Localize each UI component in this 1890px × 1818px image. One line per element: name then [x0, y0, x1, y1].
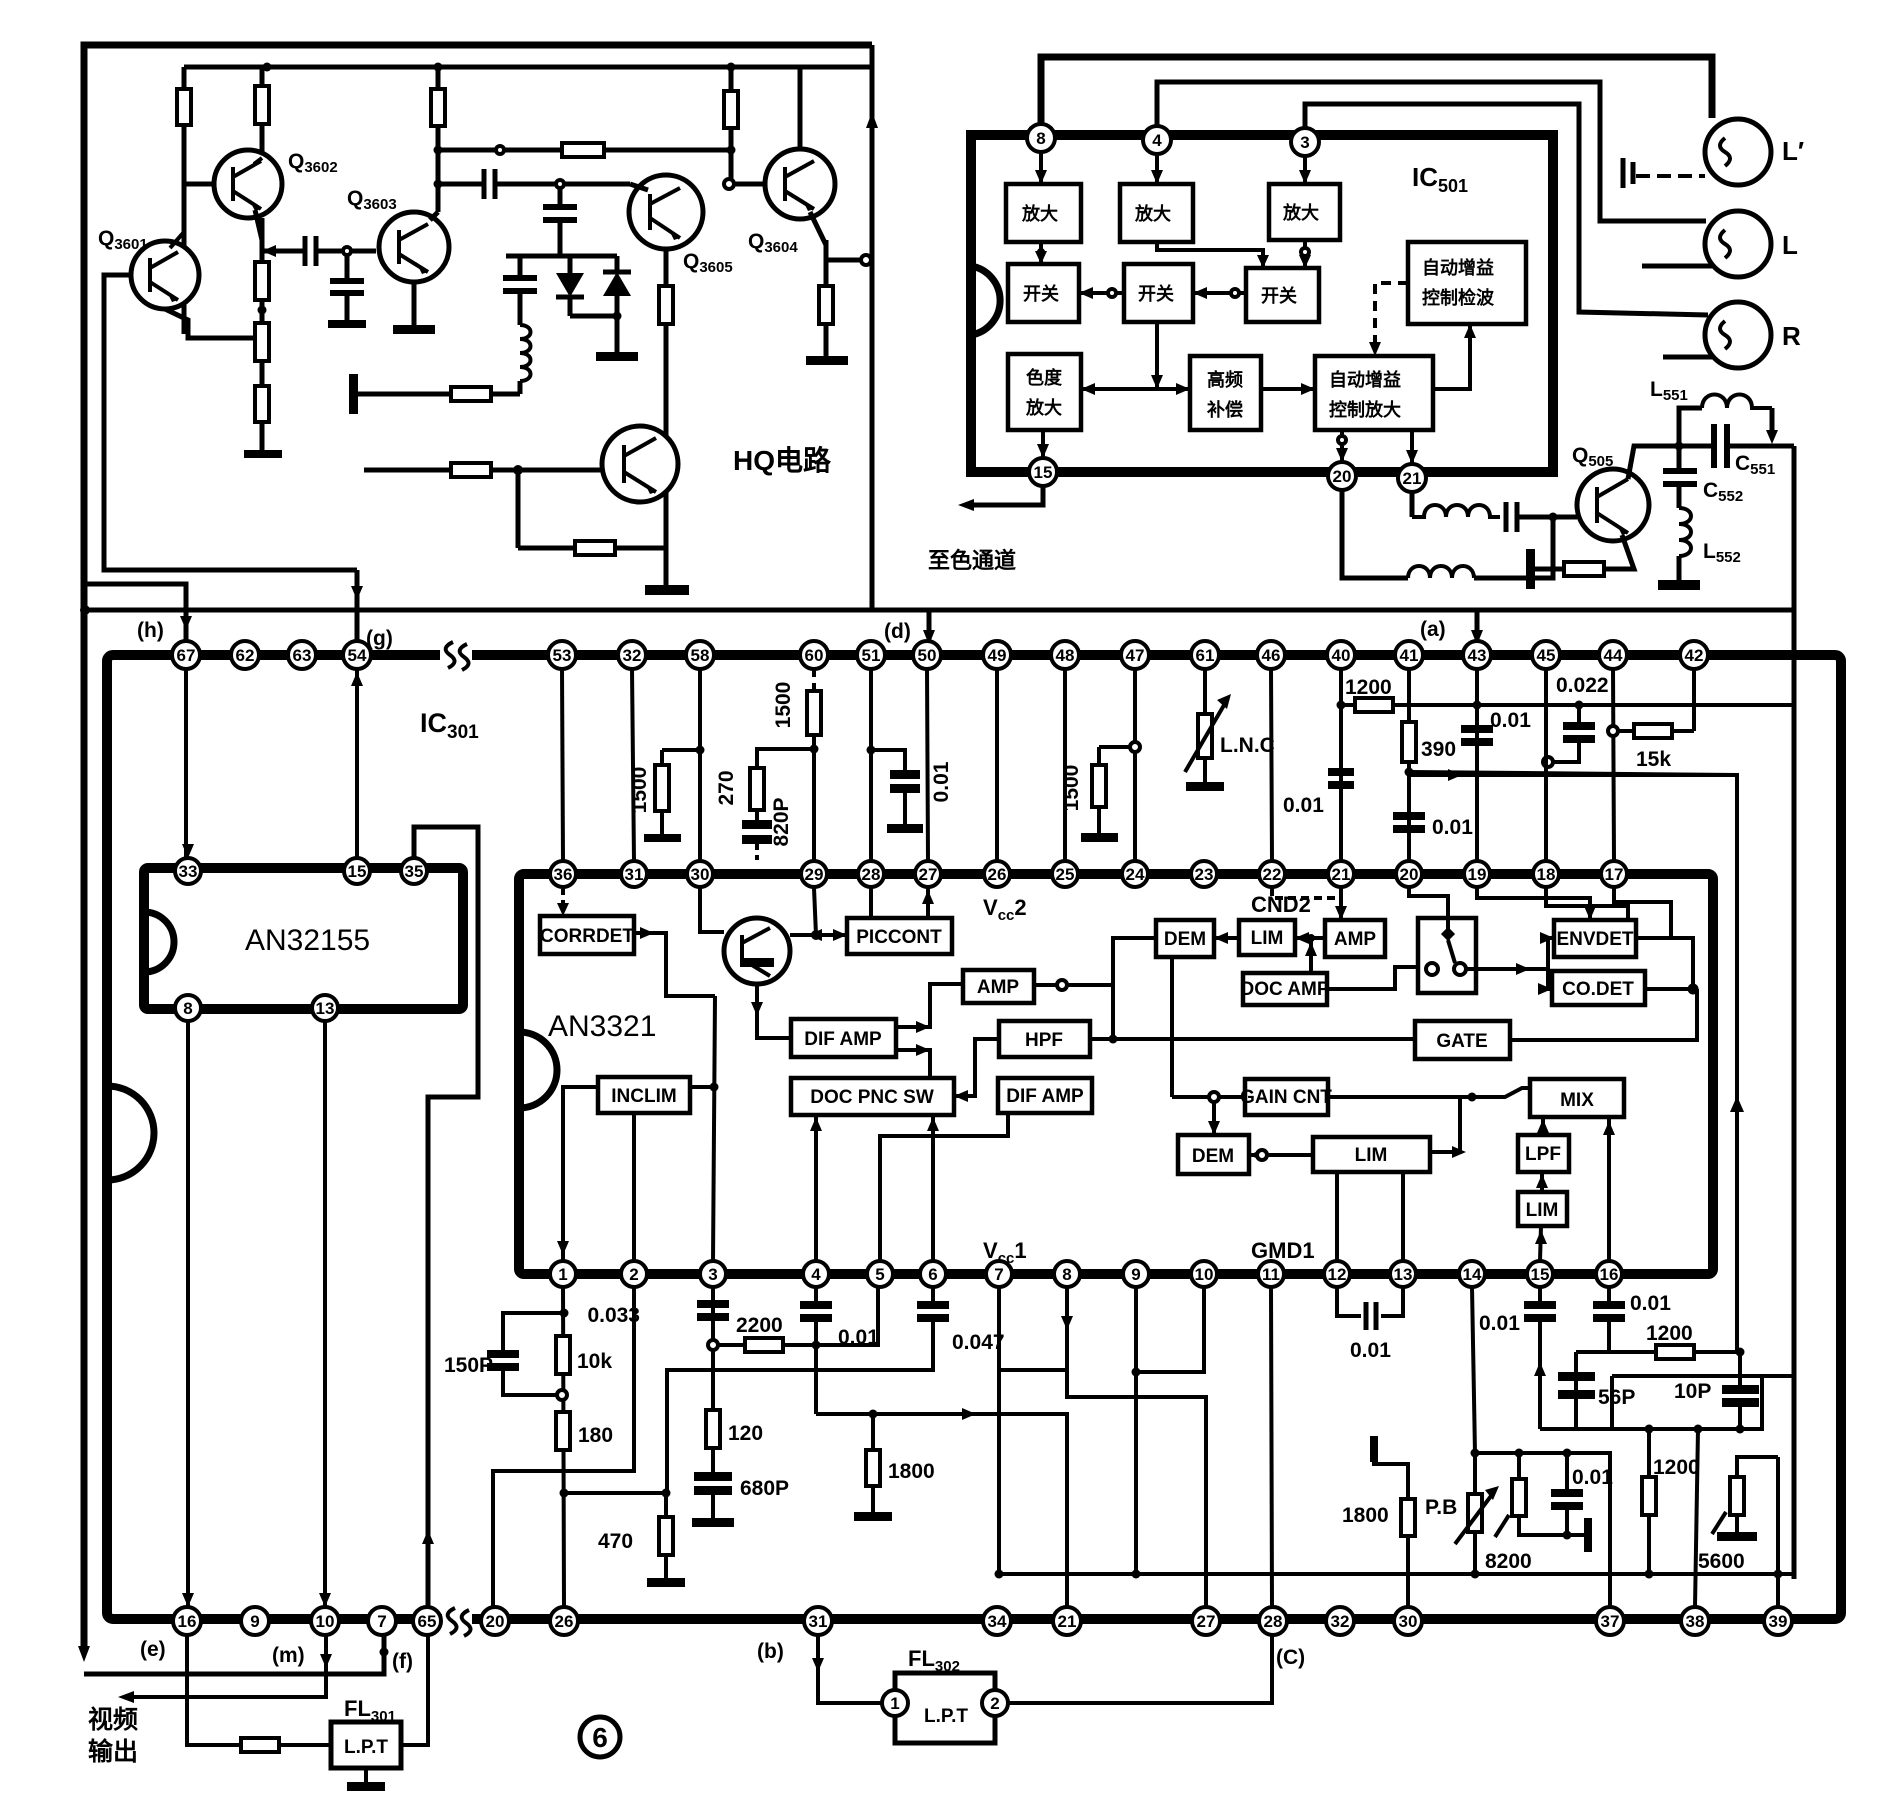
svg-text:8200: 8200: [1485, 1550, 1532, 1573]
svg-text:高频: 高频: [1207, 369, 1243, 390]
resistor 1800 left: [854, 1414, 892, 1521]
pin 24 AN3321 top: [1122, 861, 1148, 887]
head L': [1705, 119, 1771, 185]
svg-text:L.P.T: L.P.T: [344, 1737, 388, 1758]
capacitor C552: [1663, 446, 1697, 508]
svg-text:至色通道: 至色通道: [928, 548, 1016, 573]
wire LIM2 to DEM2: [1249, 1149, 1313, 1161]
resistor FL301 input: [241, 1738, 331, 1752]
wire Q3604 collector: [798, 67, 803, 149]
block LPF: [1518, 1135, 1569, 1172]
svg-text:开关: 开关: [1261, 285, 1297, 306]
wire DEM bottom to GAINCNT: [1172, 957, 1245, 1102]
diode D3601: [556, 256, 584, 316]
potentiometer L.N.C at pin61: [1185, 669, 1231, 791]
ground Q3606 emitter: [645, 548, 689, 595]
capacitor 0.01 pb: [1551, 1453, 1592, 1552]
svg-text:28: 28: [862, 865, 881, 884]
svg-text:视频: 视频: [88, 1706, 138, 1734]
wire pin3 column: [708, 1287, 718, 1410]
IC block AN32155: [144, 868, 463, 1009]
svg-text:1800: 1800: [1342, 1504, 1389, 1527]
wire pin53 to pin36: [562, 669, 563, 861]
svg-text:41: 41: [1400, 646, 1419, 665]
svg-text:DEM: DEM: [1192, 1146, 1234, 1167]
wire DOCAMP top: [1305, 938, 1317, 973]
pin 8 AN3321 bottom: [1054, 1261, 1080, 1287]
svg-text:(m): (m): [272, 1644, 305, 1667]
wire pin44 to pin17: [1608, 669, 1618, 861]
pin 2 AN3321 bottom: [621, 1261, 647, 1287]
wire pin39 column: [1774, 1457, 1783, 1607]
svg-text:46: 46: [1262, 646, 1281, 665]
transistor Q3605: [629, 175, 703, 249]
pin 42 IC301 top: [1680, 641, 1708, 669]
capacitor 0.022 at pin45: [1543, 705, 1595, 767]
pin 25 AN3321 top: [1052, 861, 1078, 887]
svg-text:(f): (f): [392, 1650, 413, 1673]
svg-text:6: 6: [928, 1265, 937, 1284]
wire y1493 to 470: [564, 1489, 671, 1498]
resistor 8200: [1495, 1453, 1563, 1537]
svg-text:0.01: 0.01: [1490, 709, 1531, 732]
pin 7 IC301 bottom: [368, 1607, 396, 1635]
wire switch2 to switch1: [1079, 287, 1124, 299]
wire (a) drop to pin43: [1471, 610, 1483, 645]
wire pin67 to pin33: [182, 669, 194, 858]
wire pin6 to DOCPNCSW: [927, 1115, 939, 1261]
wire switch out fork: [1466, 932, 1554, 995]
pin 20 IC301 bottom: [481, 1607, 509, 1635]
wire Q3605 base: [630, 184, 648, 190]
svg-text:7: 7: [994, 1265, 1003, 1284]
resistor 1500 at pin47: [1081, 747, 1130, 842]
wire FL302 to pin28: [1008, 1635, 1272, 1703]
wire pin60 to pin29 + resistor 1500: [807, 669, 821, 861]
pin 35 AN32155 top: [401, 858, 427, 884]
capacitor 10P: [1722, 1352, 1759, 1429]
pin 38 IC301 bottom: [1681, 1607, 1709, 1635]
wire AGC amp to pin21: [1406, 430, 1418, 464]
resistor R3604: [724, 67, 738, 184]
wire DIFAMP to AMP: [896, 984, 963, 1033]
wire pin7 column: [995, 1287, 1004, 1579]
block amp3: [1269, 184, 1340, 240]
svg-text:4: 4: [1152, 131, 1162, 150]
svg-text:680P: 680P: [740, 1477, 789, 1500]
pin 48 IC301 top: [1051, 641, 1079, 669]
pin 21 IC301 bottom: [1053, 1607, 1081, 1635]
svg-text:35: 35: [405, 862, 424, 881]
svg-text:27: 27: [919, 865, 938, 884]
wire AGC det dashed feedback: [1369, 283, 1408, 356]
pin 31 IC301 bottom: [804, 1607, 832, 1635]
pin 26 IC301 bottom: [550, 1607, 578, 1635]
svg-text:21: 21: [1403, 469, 1422, 488]
svg-text:23: 23: [1195, 865, 1214, 884]
block HF compensation: [1190, 356, 1261, 430]
svg-text:0.01: 0.01: [838, 1326, 879, 1349]
wire pin17 elbow: [1614, 888, 1671, 938]
wire (h) feed: [85, 584, 192, 641]
pin 18 AN3321 top: [1533, 861, 1559, 887]
pin 10 IC301 bottom: [311, 1607, 339, 1635]
pin 58 IC301 top: [686, 641, 714, 669]
capacitor C3604 small: [543, 188, 577, 256]
svg-text:13: 13: [316, 999, 335, 1018]
svg-text:62: 62: [236, 646, 255, 665]
svg-text:31: 31: [625, 865, 644, 884]
wire switch2 down to chroma line: [1151, 322, 1163, 389]
block amp2: [1120, 184, 1193, 242]
block PICCONT: [847, 918, 952, 954]
wire Q3601 emitter: [165, 309, 262, 338]
svg-text:5600: 5600: [1698, 1550, 1745, 1573]
pin 30 IC301 bottom: [1394, 1607, 1422, 1635]
pin 11 AN3321 bottom: [1258, 1261, 1284, 1287]
svg-text:1200: 1200: [1345, 676, 1392, 699]
wire pin54 to pin15: [351, 669, 363, 858]
transistor Q3603: [379, 212, 449, 282]
svg-text:150P: 150P: [444, 1354, 493, 1377]
resistor 2200 line: [718, 1287, 878, 1352]
svg-text:10P: 10P: [1674, 1380, 1711, 1403]
wire pin36 to CORRDET: [557, 888, 569, 916]
svg-text:28: 28: [1264, 1612, 1283, 1631]
wire INCLIM right: [690, 1085, 714, 1089]
capacitor 0.01 at pin41: [1393, 812, 1425, 833]
transistor Q3602: [214, 150, 282, 218]
pin 63 IC301 top: [288, 641, 316, 669]
wire Q3603 collector: [430, 146, 443, 221]
pin 20 AN3321 top: [1396, 861, 1422, 887]
wire LPF to LIM3: [1536, 1172, 1548, 1192]
svg-text:820P: 820P: [770, 797, 793, 846]
wire rail pin3 to head R: [1305, 104, 1708, 315]
resistor R3605: [255, 262, 269, 323]
block DIF AMP 2: [998, 1078, 1092, 1113]
pin 40 IC301 top: [1327, 641, 1355, 669]
pin 3 AN3321 bottom: [700, 1261, 726, 1287]
svg-text:29: 29: [805, 865, 824, 884]
pin 49 IC301 top: [983, 641, 1011, 669]
wire power rail top-left: [184, 63, 870, 72]
svg-text:0.01: 0.01: [1479, 1312, 1520, 1335]
block LIM: [1239, 920, 1295, 955]
wire pin1 to INCLIM: [557, 1087, 598, 1261]
wire pin19 to ENVDET: [1477, 888, 1596, 920]
svg-text:20: 20: [486, 1612, 505, 1631]
svg-text:47: 47: [1126, 646, 1145, 665]
svg-text:INCLIM: INCLIM: [611, 1086, 676, 1107]
pin 50 IC301 top: [913, 641, 941, 669]
svg-text:3: 3: [1300, 133, 1309, 152]
svg-text:AMP: AMP: [1334, 929, 1377, 950]
block switch1: [1008, 264, 1079, 322]
wire Q3604 emitter + resistor R3611: [806, 212, 848, 365]
wire HPF to DOCPNCSW: [954, 1039, 999, 1102]
block LIM 3: [1518, 1192, 1567, 1226]
wire pin8 to amp1: [1035, 152, 1047, 184]
wire GAINCNT to MIX and pin14: [1328, 1088, 1530, 1102]
capacitor 680P: [692, 1472, 734, 1527]
svg-text:1500: 1500: [628, 767, 651, 814]
wire pin6 column + capacitor 0.047: [667, 1287, 949, 1490]
block LIM 2: [1313, 1137, 1430, 1172]
svg-text:42: 42: [1685, 646, 1704, 665]
pin 20 IC501: [1328, 462, 1356, 490]
svg-text:58: 58: [691, 646, 710, 665]
wire chroma amp to pin15: [1037, 430, 1049, 458]
svg-text:22: 22: [1263, 865, 1282, 884]
pin 54 IC301 top: [343, 641, 371, 669]
capacitor 0.01 loop pins12-13: [1337, 1287, 1403, 1330]
block DEM 2: [1178, 1135, 1249, 1174]
svg-text:65: 65: [418, 1612, 437, 1631]
wire pin4 to amp2: [1151, 154, 1163, 184]
svg-text:8: 8: [1062, 1265, 1071, 1284]
trimmer near L': [1623, 158, 1705, 188]
wire pin13 to LIM2: [1401, 1172, 1405, 1261]
svg-text:2200: 2200: [736, 1314, 783, 1337]
svg-text:0.01: 0.01: [1432, 816, 1473, 839]
svg-text:控制检波: 控制检波: [1422, 287, 1495, 308]
svg-text:50: 50: [918, 646, 937, 665]
wire video bus horizontal: [80, 605, 1794, 615]
block CORRDET: [540, 916, 634, 954]
wire (d) drop to pin50: [923, 610, 935, 645]
pin 8 IC501: [1027, 124, 1055, 152]
svg-text:L.N.C: L.N.C: [1220, 734, 1275, 757]
svg-text:20: 20: [1400, 865, 1419, 884]
svg-text:30: 30: [1399, 1612, 1418, 1631]
pin 13 AN3321 bottom: [1390, 1261, 1416, 1287]
block switch3: [1246, 268, 1319, 322]
resistor R3606: [255, 323, 269, 386]
block AGC detector: [1408, 242, 1526, 324]
wire pin47 to pin24: [1130, 669, 1140, 861]
block HPF: [999, 1021, 1090, 1057]
wire pin5 to DIFAMP2: [880, 1113, 1008, 1261]
pin 1 AN3321 bottom: [550, 1261, 576, 1287]
pin 12 AN3321 bottom: [1324, 1261, 1350, 1287]
svg-text:(h): (h): [137, 619, 164, 642]
svg-text:15: 15: [1531, 1265, 1550, 1284]
wire pin32 to pin31: [632, 669, 634, 861]
wire LIM2 right up: [1430, 1097, 1466, 1158]
wire pin29 down: [814, 888, 816, 935]
svg-text:15k: 15k: [1636, 748, 1671, 771]
wire pin3 column up: [710, 996, 719, 1261]
svg-text:DOC PNC SW: DOC PNC SW: [810, 1087, 934, 1108]
wire Q3601 base: [104, 275, 357, 570]
svg-text:21: 21: [1058, 1612, 1077, 1631]
svg-text:10: 10: [1195, 1265, 1214, 1284]
svg-text:控制放大: 控制放大: [1329, 399, 1401, 420]
svg-text:LIM: LIM: [1355, 1145, 1388, 1166]
svg-text:60: 60: [805, 646, 824, 665]
wire Q3604 base: [724, 179, 765, 189]
wire pin22 elbow: [1272, 888, 1341, 898]
wire Q505 collector: [1628, 442, 1684, 480]
wire pin10 column: [1132, 1287, 1205, 1377]
wire DIFAMP to DOCPNCSW: [896, 1044, 930, 1078]
pin 39 IC301 bottom: [1764, 1607, 1792, 1635]
wire pin13 to pin10: [319, 1021, 331, 1607]
svg-text:10k: 10k: [577, 1350, 612, 1373]
pin 45 IC301 top: [1532, 641, 1560, 669]
svg-text:17: 17: [1605, 865, 1624, 884]
block GATE: [1415, 1021, 1510, 1059]
svg-text:色度: 色度: [1026, 367, 1063, 388]
svg-text:12: 12: [1328, 1265, 1347, 1284]
svg-text:7: 7: [377, 1612, 386, 1631]
pin 62 IC301 top: [231, 641, 259, 669]
svg-text:56P: 56P: [1598, 1386, 1635, 1409]
transistor Q3604: [765, 149, 835, 219]
resistor 5600: [1712, 1457, 1778, 1541]
wire pin16 to FL301: [187, 1635, 241, 1745]
wire pin28 to PICCONT: [869, 888, 873, 918]
block INCLIM: [598, 1077, 690, 1113]
svg-text:5: 5: [875, 1265, 884, 1284]
pin 51 IC301 top: [857, 641, 885, 669]
resistor 1200 vertical: [1642, 1429, 1656, 1574]
inductor L551: [1679, 395, 1778, 447]
svg-text:14: 14: [1463, 1265, 1482, 1284]
block GAIN CNT: [1240, 1079, 1332, 1115]
wire GATE right: [1510, 989, 1697, 1040]
svg-text:HPF: HPF: [1025, 1030, 1063, 1051]
wire y775 to right: [1409, 769, 1737, 781]
resistor R3608 feedback: [438, 143, 736, 157]
block CO.DET: [1552, 971, 1645, 1005]
pin 14 AN3321 bottom: [1459, 1261, 1485, 1287]
wire pin9 column: [1132, 1287, 1141, 1579]
svg-text:30: 30: [691, 865, 710, 884]
break mark top bus: [440, 642, 472, 670]
wire lineC y1376: [1612, 1376, 1794, 1429]
pin 9 IC301 bottom: [241, 1607, 269, 1635]
IC block AN3321 frame: [519, 874, 1713, 1274]
wire pin3 to amp3: [1299, 156, 1311, 184]
svg-text:LIM: LIM: [1526, 1200, 1559, 1221]
svg-text:1: 1: [558, 1265, 567, 1284]
svg-text:18: 18: [1537, 865, 1556, 884]
wire a-line vertical: [1792, 446, 1797, 1579]
wire pin15 output: [958, 486, 1043, 511]
svg-text:13: 13: [1394, 1265, 1413, 1284]
wire pin27 to PICCONT: [922, 888, 934, 918]
svg-text:0.01: 0.01: [1350, 1339, 1391, 1362]
pin 29 AN3321 top: [801, 861, 827, 887]
svg-text:DIF AMP: DIF AMP: [1006, 1086, 1084, 1107]
pin 43 IC301 top: [1463, 641, 1491, 669]
block DOC AMP: [1240, 973, 1329, 1005]
block MIX: [1530, 1079, 1624, 1117]
wire pin16 column + capacitor 0.01: [1593, 1287, 1625, 1352]
svg-text:DEM: DEM: [1164, 929, 1206, 950]
svg-text:32: 32: [623, 646, 642, 665]
diode D3602: [570, 256, 631, 321]
capacitor coupling C3601: [262, 236, 376, 266]
wire ENVDET right: [1636, 938, 1693, 989]
wire GATE left long: [1090, 1037, 1415, 1041]
wire node to DEM2: [1208, 1102, 1220, 1135]
block ENVDET: [1554, 920, 1636, 957]
ground FL301: [347, 1768, 385, 1791]
svg-text:LIM: LIM: [1251, 928, 1284, 949]
pin 32 IC301 top: [618, 641, 646, 669]
svg-text:GMD1: GMD1: [1251, 1238, 1315, 1263]
svg-text:61: 61: [1196, 646, 1215, 665]
svg-text:67: 67: [177, 646, 196, 665]
wire pin18 elbow: [1546, 888, 1628, 920]
svg-text:放大: 放大: [1021, 203, 1058, 224]
svg-text:L′: L′: [1782, 136, 1804, 166]
block DEM: [1156, 920, 1214, 957]
pin 9 AN3321 bottom: [1123, 1261, 1149, 1287]
svg-text:24: 24: [1126, 865, 1145, 884]
resistor 15k: [1618, 724, 1694, 738]
wire Q3604 emitter to border: [826, 255, 871, 265]
pin 28 AN3321 top: [858, 861, 884, 887]
svg-text:9: 9: [250, 1612, 259, 1631]
pin 33 AN32155 top: [175, 858, 201, 884]
pin 61 IC301 top: [1191, 641, 1219, 669]
svg-text:0.01: 0.01: [1572, 1466, 1613, 1489]
capacitor 56P: [1558, 1352, 1595, 1429]
svg-text:AMP: AMP: [977, 977, 1020, 998]
resistor R3613 HQ feedback: [518, 470, 666, 555]
pin 21 AN3321 top: [1328, 861, 1354, 887]
block AMP 2: [1325, 920, 1385, 957]
svg-text:48: 48: [1056, 646, 1075, 665]
svg-text:51: 51: [862, 646, 881, 665]
svg-text:AN32155: AN32155: [245, 924, 370, 957]
svg-text:1800: 1800: [888, 1460, 935, 1483]
svg-text:26: 26: [988, 865, 1007, 884]
svg-text:27: 27: [1197, 1612, 1216, 1631]
wire CO.DET right: [1645, 984, 1699, 995]
inductor L3601: [520, 325, 531, 394]
wire Q3602 emitter chain: [255, 210, 262, 262]
pin 23 AN3321 top: [1191, 861, 1217, 887]
svg-text:26: 26: [555, 1612, 574, 1631]
pin 34 IC301 bottom: [983, 1607, 1011, 1635]
pin 32 IC301 bottom: [1326, 1607, 1354, 1635]
resistor 1800 right: [1370, 1436, 1415, 1607]
wire pin1 column to pin26: [560, 1287, 569, 1607]
wire pin16 to MIX: [1603, 1117, 1615, 1261]
svg-text:43: 43: [1468, 646, 1487, 665]
wire (g) drop to pin54: [351, 570, 363, 650]
wire pin35 loop to pin65: [414, 827, 478, 1607]
resistor R3602: [255, 67, 269, 158]
wire pin45 to pin18: [1544, 669, 1548, 861]
wire amp2 to switch3: [1157, 242, 1269, 268]
wire FL301 to pin65: [401, 1635, 428, 1745]
svg-text:0.01: 0.01: [1630, 1292, 1671, 1315]
svg-text:放大: 放大: [1025, 397, 1062, 418]
pin 22 AN3321 top: [1259, 861, 1285, 887]
pin 4 AN3321 bottom: [803, 1261, 829, 1287]
pin 60 IC301 top: [800, 641, 828, 669]
block AMP: [963, 970, 1034, 1003]
pin 15 IC501: [1029, 458, 1057, 486]
svg-text:45: 45: [1537, 646, 1556, 665]
wire pin21 to AMP2: [1335, 888, 1347, 920]
